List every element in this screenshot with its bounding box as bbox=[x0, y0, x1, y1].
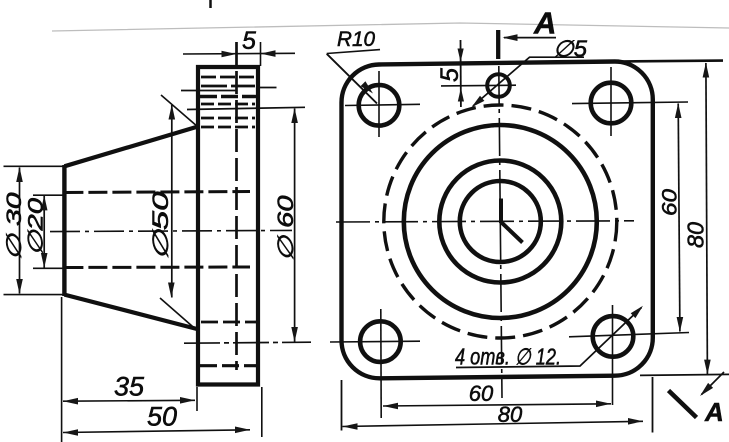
svg-text:80: 80 bbox=[498, 402, 523, 427]
dim 35 line bbox=[63, 399, 195, 402]
dim 5 top line bbox=[183, 52, 295, 55]
svg-text:4 отв. ∅ 12.: 4 отв. ∅ 12. bbox=[455, 344, 561, 370]
small hole side line upper bbox=[181, 90, 237, 92]
section A bottom arrow bbox=[702, 372, 725, 395]
d50 extension diagonal top bbox=[161, 95, 198, 127]
top edge extension right bbox=[617, 59, 723, 63]
svg-text:A: A bbox=[704, 397, 724, 427]
dim 5 small arrows bbox=[458, 49, 464, 63]
bolt hole top-right bbox=[591, 83, 632, 124]
section A bottom bar bbox=[669, 391, 697, 418]
R10 leader diagonal bbox=[327, 54, 377, 104]
crosshair hole top-left bbox=[345, 104, 420, 105]
dim d30 arrows bbox=[16, 167, 23, 182]
crosshair hole bottom-left bbox=[330, 340, 420, 343]
section plane bar top bbox=[496, 30, 500, 59]
dim 60 bottom arrows bbox=[383, 403, 398, 410]
crosshair hole bottom-right bbox=[569, 333, 689, 337]
svg-text:60: 60 bbox=[469, 381, 494, 406]
hidden vertical plate face bbox=[235, 42, 238, 370]
dim d30 extension bottom bbox=[4, 294, 65, 296]
bolt hole centerline top and d60 extension bbox=[187, 107, 305, 109]
svg-text:5: 5 bbox=[242, 27, 256, 55]
dim 5 top arrows bbox=[222, 51, 237, 58]
svg-text:∅ 60: ∅ 60 bbox=[273, 194, 298, 261]
scan tick mark bbox=[209, 0, 212, 8]
dashed circle d60 bbox=[384, 105, 617, 338]
hidden lines bolt hole top bbox=[201, 76, 255, 79]
dim 80 right line bbox=[706, 63, 708, 374]
svg-text:5: 5 bbox=[436, 68, 464, 82]
svg-text:∅20: ∅20 bbox=[25, 198, 48, 256]
left edge extension down bbox=[341, 380, 343, 431]
dim d30 extension top bbox=[4, 165, 65, 167]
dim 5 top right extension bbox=[260, 42, 262, 66]
square plate outline bbox=[342, 62, 653, 379]
cone top edge bbox=[64, 127, 198, 167]
label 4otv leader bbox=[456, 308, 642, 368]
bolt hole bottom-left bbox=[360, 321, 401, 362]
keyway hand mark bbox=[501, 199, 523, 243]
dim 80 bottom line bbox=[343, 421, 644, 426]
dim 35 right extension bbox=[196, 387, 198, 411]
bottom edge extension right bbox=[640, 374, 729, 375]
dim 50 right extension bbox=[261, 387, 263, 437]
section arrow top bbox=[504, 37, 556, 39]
dim d20 line bbox=[43, 196, 45, 269]
dim 5 small line bbox=[460, 40, 462, 107]
cone bottom edge bbox=[64, 295, 197, 329]
small hole d5 bbox=[487, 74, 510, 97]
cone left end cap bbox=[62, 165, 66, 296]
crosshair hole top-right bbox=[572, 102, 688, 104]
dim d30 line bbox=[19, 168, 21, 294]
dim 50 arrows bbox=[63, 429, 78, 436]
svg-text:35: 35 bbox=[114, 372, 145, 402]
bolt hole centerline bottom and d60 extension bbox=[184, 342, 311, 343]
dim d20 arrows bbox=[41, 195, 48, 210]
circle d30 bbox=[439, 161, 561, 283]
dim 80 right arrows bbox=[703, 63, 710, 78]
dim d20 extension bottom bbox=[33, 267, 66, 269]
dim 60 right arrows bbox=[675, 103, 682, 118]
hidden bore line bottom bbox=[64, 266, 250, 270]
circle d50 boss bbox=[404, 125, 597, 318]
dim 50 line bbox=[63, 430, 250, 433]
dim d60 left view line bbox=[294, 109, 296, 342]
dim d60 left view arrows bbox=[291, 108, 298, 123]
dim 60 bottom line bbox=[383, 404, 611, 406]
hidden bore line top bbox=[64, 192, 250, 193]
svg-text:60: 60 bbox=[659, 189, 682, 216]
svg-text:∅ 30: ∅ 30 bbox=[3, 192, 26, 260]
dim 80 bottom arrows bbox=[343, 423, 358, 430]
bore circle d20 bbox=[460, 181, 541, 262]
d50 extension diagonal bottom bbox=[160, 298, 196, 330]
flange rectangle outline bbox=[198, 67, 258, 385]
svg-text:R10: R10 bbox=[337, 27, 375, 51]
dim d20 extension top bbox=[33, 194, 66, 196]
small hole centerline bbox=[441, 84, 516, 87]
horizontal centerline bbox=[336, 221, 634, 222]
svg-text:50: 50 bbox=[147, 402, 177, 432]
right edge extension down bbox=[652, 377, 654, 433]
R10 leader underline bbox=[327, 50, 380, 54]
dim d50 arrows bbox=[169, 105, 176, 120]
vertical centerline bbox=[499, 66, 502, 398]
bolt hole bottom-right bbox=[593, 316, 634, 357]
svg-text:80: 80 bbox=[683, 222, 709, 248]
dim 35-50 left extension bbox=[61, 297, 63, 442]
svg-text:∅5: ∅5 bbox=[553, 36, 587, 62]
dim 35 arrows bbox=[63, 398, 78, 405]
bolt hole top-left bbox=[359, 85, 400, 126]
centerline left view bbox=[50, 230, 292, 231]
small hole side line upper right bbox=[258, 87, 277, 89]
d5 leader bbox=[473, 57, 584, 106]
faint page rule line bbox=[52, 23, 729, 31]
dim 60 right line bbox=[678, 104, 680, 332]
hidden lines bolt hole bottom bbox=[201, 321, 259, 324]
dim d50 line bbox=[171, 105, 173, 298]
svg-text:∅50: ∅50 bbox=[148, 190, 173, 260]
